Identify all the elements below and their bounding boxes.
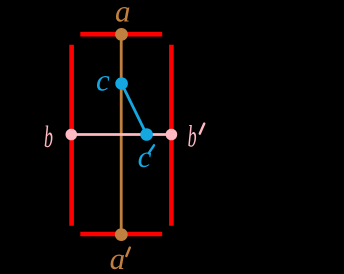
point b' [166, 129, 178, 141]
svg-text:a: a [110, 241, 126, 274]
label b' [188, 118, 205, 153]
segment a a' (vertical tan line) [120, 34, 123, 234]
svg-text:a: a [115, 0, 131, 28]
svg-text:b: b [44, 119, 53, 154]
rectangle side top [80, 32, 162, 37]
segment b b' (horizontal pink line) [71, 133, 171, 136]
segment c c' (blue line) [122, 84, 147, 135]
svg-text:c: c [138, 139, 152, 174]
label c' [138, 139, 154, 174]
rectangle side right [169, 45, 174, 226]
point b [66, 129, 78, 141]
point c' [140, 128, 153, 141]
point c [115, 77, 128, 90]
rectangle side bottom [80, 232, 162, 237]
label a' [110, 241, 130, 274]
point a [115, 28, 128, 41]
rectangle side left [69, 45, 74, 226]
svg-text:c: c [96, 62, 110, 97]
point a' [115, 228, 128, 241]
svg-text:b: b [188, 118, 197, 153]
